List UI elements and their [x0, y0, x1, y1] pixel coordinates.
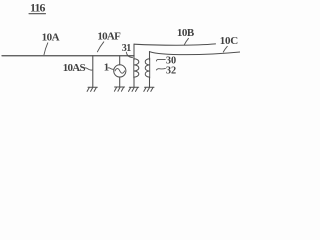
svg-text:1: 1 — [104, 61, 109, 73]
transformer primary coil 31 — [134, 58, 139, 78]
wire 10A (main power line) — [2, 55, 134, 57]
wire primary coil to ground — [133, 77, 135, 87]
wire 10C (slightly bowed scan line) — [150, 52, 241, 55]
label 1 — [104, 61, 114, 73]
label 30 (transformer) — [156, 56, 176, 67]
wire 10B (slightly bowed scan line) — [134, 44, 216, 45]
label 10A — [42, 32, 60, 55]
svg-text:10A: 10A — [42, 32, 60, 44]
svg-text:10C: 10C — [220, 35, 238, 47]
ground (primary coil) — [129, 87, 139, 91]
wire 10C corner down to transformer secondary — [149, 52, 151, 60]
ground (secondary coil) — [144, 87, 154, 91]
transformer secondary coil 32 — [145, 58, 150, 78]
figure number 116 — [29, 1, 46, 15]
svg-text:116: 116 — [30, 1, 46, 15]
wire source 1 to ground — [119, 77, 121, 87]
svg-text:10AS: 10AS — [63, 62, 86, 74]
svg-text:10AF: 10AF — [97, 31, 121, 43]
label 10B — [177, 27, 195, 45]
wire 10AS (ground stub) — [92, 56, 94, 87]
wire secondary coil to ground — [149, 77, 151, 87]
label 31 — [122, 43, 133, 58]
label 10AS — [63, 62, 92, 74]
ground (signal source) — [114, 87, 124, 91]
svg-text:10B: 10B — [177, 27, 195, 39]
ground (10AS stub) — [87, 87, 97, 91]
wire junction: corner from 10B down through 10A to transformer primary — [133, 44, 135, 60]
svg-text:32: 32 — [166, 65, 176, 76]
label 10C — [220, 35, 238, 52]
AC signal source 1 (circle with sine wave) — [114, 65, 126, 77]
label 10AF — [97, 31, 121, 52]
wire from 10A down to signal source 1 — [119, 56, 121, 65]
label 32 — [156, 65, 176, 76]
